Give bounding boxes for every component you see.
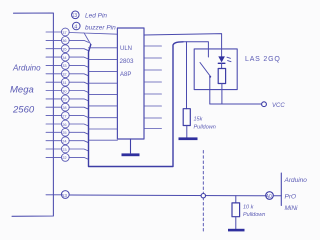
svg-text:LAS 2GQ: LAS 2GQ [245,56,281,63]
svg-text:15k: 15k [194,117,203,123]
svg-text:27: 27 [62,113,66,118]
svg-text:31: 31 [62,80,66,85]
pin wire row 6 [46,73,61,75]
relay module box K1 [194,49,237,90]
ULN2803 chip box U1 [117,28,144,139]
pin wire row 4 [46,56,61,58]
arduino pro mini edge line [280,173,282,206]
bus wire loop [89,42,184,167]
svg-text:35: 35 [62,47,66,52]
legend pin 13 circle [72,11,80,19]
pin wire row 2 [46,39,61,41]
svg-text:A0: A0 [266,194,272,200]
VCC terminal circle [262,102,267,107]
svg-text:VCC: VCC [272,103,285,109]
svg-text:Pulldown: Pulldown [243,212,265,218]
wire pin1 to relay LED [144,34,222,57]
legend pin 4 circle [73,22,81,30]
svg-text:32: 32 [62,72,66,77]
svg-text:28: 28 [62,105,66,110]
resistor 10k bottom [235,196,237,203]
svg-text:A8P: A8P [120,72,131,78]
svg-text:MiNi: MiNi [285,205,299,212]
wire bridge to switch [183,42,208,57]
pin wire row 10 [46,106,61,108]
chip ground [130,139,132,153]
dashed line [202,151,204,232]
svg-text:Arduino: Arduino [284,177,308,184]
relay switch contact [200,63,211,77]
chip left rungs from bus [89,48,118,140]
svg-text:Pulldown: Pulldown [194,125,216,131]
svg-text:53: 53 [62,193,68,198]
pin wire row 14 [46,140,61,142]
svg-text:13: 13 [72,13,78,19]
svg-text:25: 25 [62,130,66,135]
svg-text:23: 23 [62,147,66,152]
node on dashed line [201,194,205,198]
svg-text:24: 24 [62,139,67,144]
svg-text:Mega: Mega [10,85,34,96]
pin wire row 12 [46,123,61,125]
ground 15k [179,137,198,140]
svg-text:29: 29 [62,97,66,102]
VCC wire [210,103,261,105]
pin wire row 15 [46,148,61,150]
svg-text:30: 30 [62,88,67,93]
pulldown branch wire [186,42,188,109]
Arduino Mega 2560 outline [12,13,53,216]
svg-text:36: 36 [62,38,66,43]
resistor 15k [183,109,190,126]
svg-text:PrO: PrO [285,194,297,201]
svg-text:10 k: 10 k [243,205,254,211]
svg-text:Arduino: Arduino [12,64,41,73]
pin wire row 11 [46,115,61,117]
bottom mega pin circle [61,191,69,199]
wire to pro mini [69,194,266,197]
svg-text:2560: 2560 [12,105,35,116]
svg-text:4: 4 [74,25,77,31]
relay LED series resistor [218,69,225,84]
pin wire row 3 [46,48,61,50]
relay LED D1 [218,56,225,62]
pro mini pin circle A0 [266,192,274,200]
svg-text:37: 37 [62,30,66,35]
svg-text:22: 22 [62,155,66,160]
ground 10k [228,229,245,232]
svg-text:33: 33 [62,63,66,68]
pin wire row 7 [46,81,61,83]
bottom signal wire [46,194,61,196]
svg-text:26: 26 [62,122,66,127]
pin wire row 9 [46,98,61,100]
svg-text:ULN: ULN [120,46,132,52]
chip right pin stubs [144,46,162,129]
svg-text:34: 34 [62,55,67,60]
pin wire row 16 [46,156,61,158]
pin wire row 13 [46,131,61,133]
svg-text:Led Pin: Led Pin [85,13,107,20]
pin wire row 1 [46,31,61,33]
mega pin circles column with stubs and wires [46,28,117,161]
pin wire row 8 [46,90,61,92]
svg-text:2803: 2803 [120,58,135,65]
pin wire row 5 [46,64,61,66]
svg-text:buzzer Pin: buzzer Pin [85,24,116,31]
